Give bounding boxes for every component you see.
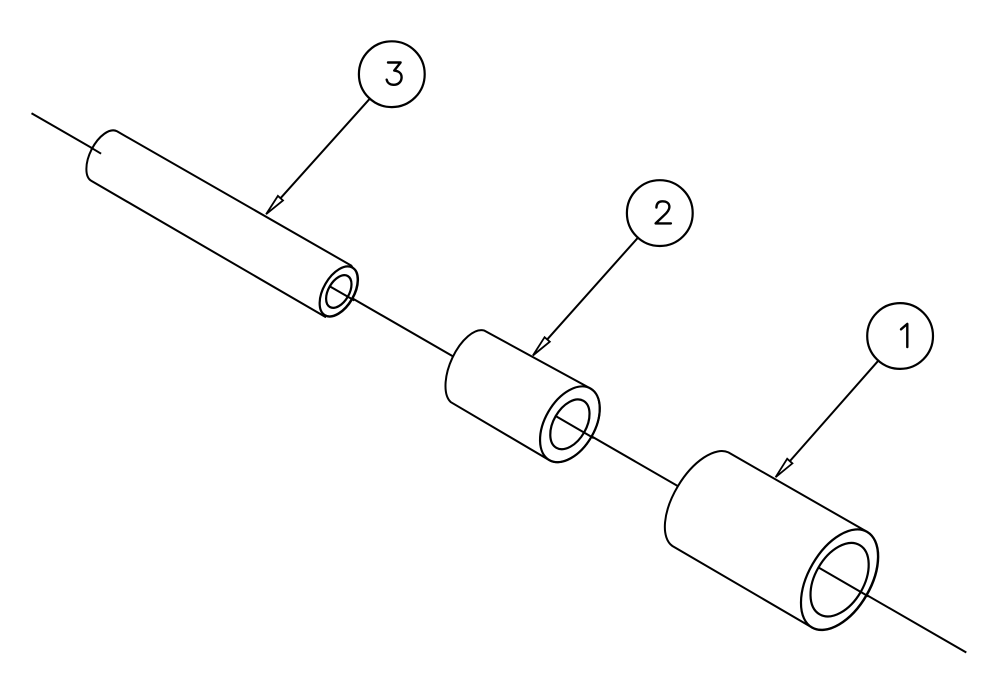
part 2 body (445, 330, 599, 462)
balloon circle 3 (359, 41, 425, 107)
part 3 axis line through bore (329, 286, 354, 300)
part 3 body (86, 130, 357, 317)
part 2 bore (542, 393, 598, 456)
leader line 1 (786, 361, 878, 466)
part 1 body (665, 451, 878, 630)
leader line 3 (277, 99, 370, 203)
part 3 bore (321, 271, 357, 312)
arrowhead 2 (533, 337, 550, 355)
part 3 front face (312, 260, 366, 323)
balloon digit 2 (656, 201, 671, 223)
balloon digit 1 (901, 324, 907, 347)
part 2 axis line through bore (555, 416, 593, 438)
balloon circle 2 (627, 180, 693, 246)
arrowhead 3 (266, 196, 283, 214)
arrowhead 1 (776, 459, 793, 477)
part 1 front face (785, 516, 894, 643)
balloon digit 3 (387, 63, 402, 85)
part 1 bore (798, 533, 880, 627)
leader line 2 (543, 238, 638, 344)
part 2 front face (528, 376, 612, 472)
part 1 axis line through bore (818, 567, 869, 596)
exploded-view centerline (32, 113, 967, 652)
centerline stub into part 3 rear (91, 147, 102, 153)
balloon circle 1 (867, 303, 933, 369)
